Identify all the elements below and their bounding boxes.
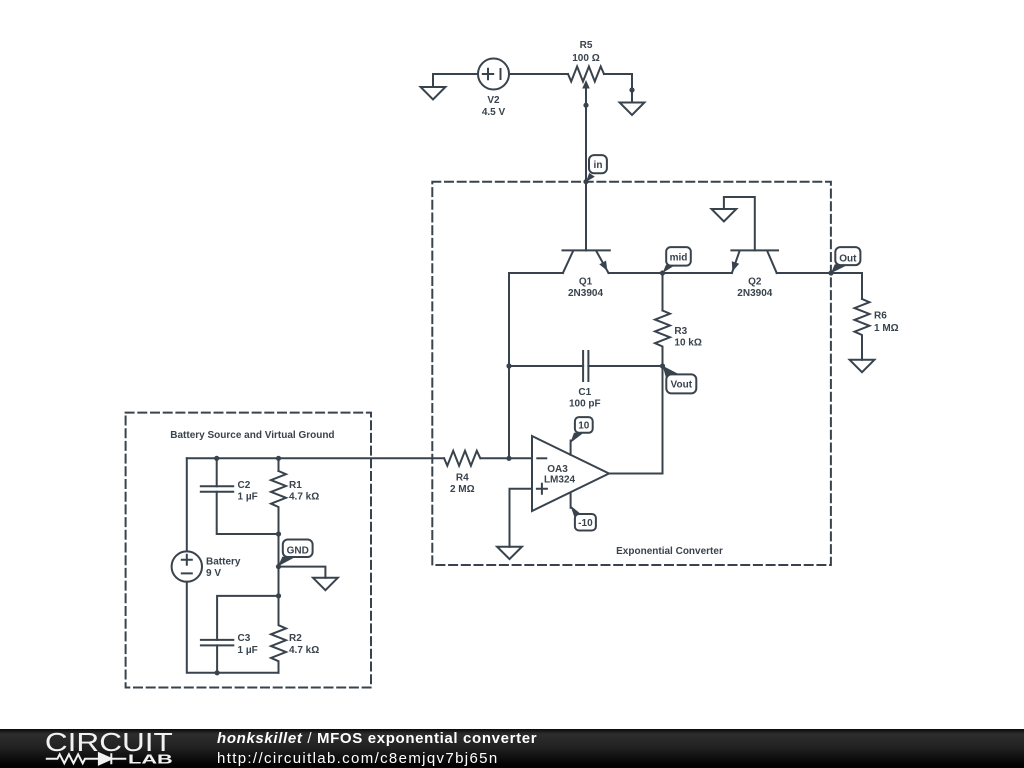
junction dot on wiper (583, 103, 588, 108)
ground G3 (Q2 base) (712, 209, 737, 221)
junction dot right of R5 (629, 87, 634, 92)
svg-text:100 Ω: 100 Ω (572, 53, 599, 64)
junction dot C2 top (214, 456, 219, 461)
footer bar (0, 729, 1024, 768)
svg-text:1 MΩ: 1 MΩ (874, 323, 899, 334)
label R4 value (450, 473, 475, 496)
svg-text:LM324: LM324 (544, 474, 576, 485)
svg-text:R2: R2 (289, 633, 302, 644)
svg-text:R3: R3 (674, 326, 687, 337)
svg-text:4.7 kΩ: 4.7 kΩ (289, 645, 319, 656)
dashed box Battery Source and Virtual Ground (126, 413, 371, 688)
label C1 value (569, 387, 601, 410)
capacitor C1 (509, 351, 663, 381)
label R1 value (289, 480, 319, 503)
label Battery Source and Virtual Ground (170, 430, 334, 441)
svg-text:LAB: LAB (128, 752, 173, 767)
wire battery left vertical top (186, 458, 188, 551)
dashed box Exponential Converter (432, 182, 831, 565)
node flag GND (278, 540, 313, 567)
svg-text:2 MΩ: 2 MΩ (450, 484, 475, 495)
svg-text:in: in (594, 160, 603, 171)
label Exponential Converter (616, 546, 723, 557)
label Q1 (568, 277, 603, 300)
op-amp OA3 (532, 436, 609, 511)
svg-text:C2: C2 (238, 480, 251, 491)
svg-text:R1: R1 (289, 480, 302, 491)
label R3 value (674, 326, 701, 349)
svg-text:R5: R5 (580, 40, 593, 51)
svg-text:10: 10 (578, 421, 590, 432)
junction dot Vout (660, 363, 665, 368)
label C3 value (238, 633, 258, 656)
svg-text:-10: -10 (578, 518, 593, 529)
svg-text:Out: Out (839, 253, 857, 264)
wire GND node to ground (279, 567, 326, 578)
svg-text:4.5 V: 4.5 V (482, 107, 506, 118)
label R2 value (289, 633, 319, 656)
junction dot C3 tee (276, 593, 281, 598)
resistor R2 (271, 596, 286, 673)
resistor R5 (potentiometer) (568, 67, 604, 106)
ground G1 (left of V2) (421, 74, 446, 99)
svg-text:1 µF: 1 µF (238, 492, 258, 503)
wire R5 right to corner (604, 74, 632, 90)
ground G6 (virtual ground) (313, 578, 338, 590)
wire battery bottom to rail (187, 582, 279, 673)
label OA3 (544, 464, 576, 485)
node flag Vout (663, 366, 697, 394)
svg-text:Q1: Q1 (579, 277, 593, 288)
node flag in (586, 155, 607, 182)
resistor R3 (655, 311, 670, 367)
wire Q1 collector to left column (509, 273, 563, 458)
svg-text:R6: R6 (874, 311, 887, 322)
svg-text:2N3904: 2N3904 (737, 288, 772, 299)
wire opamp + input to ground (510, 489, 533, 547)
svg-text:GND: GND (287, 545, 309, 556)
ground G4 (below R6) (850, 358, 875, 372)
wire in node to Q1 base (585, 182, 587, 251)
transistor Q2 (731, 250, 778, 273)
svg-text:C3: C3 (238, 633, 251, 644)
resistor R1 (271, 458, 286, 596)
junction dot R1 top (276, 456, 281, 461)
label V2 value (482, 95, 506, 118)
power flag -10 (570, 493, 596, 531)
resistor R6 (855, 299, 870, 358)
voltage source V2 (478, 59, 509, 90)
svg-text:Battery: Battery (206, 556, 241, 567)
ground G2 (right of R5) (620, 90, 645, 115)
power flag 10 (570, 417, 592, 455)
wire Q1 emitter to mid (609, 272, 663, 274)
svg-text:2N3904: 2N3904 (568, 288, 603, 299)
svg-text:9 V: 9 V (206, 568, 221, 579)
label R6 value (874, 311, 899, 334)
svg-text:V2: V2 (487, 95, 500, 106)
svg-text:10 kΩ: 10 kΩ (674, 338, 701, 349)
junction dot Out (828, 270, 833, 275)
junction dot node in (583, 179, 588, 184)
svg-text:100 pF: 100 pF (569, 399, 601, 410)
resistor R4 (444, 451, 532, 466)
label R5 value (572, 40, 599, 64)
wire Vout column to op-amp output (609, 366, 663, 474)
footer url (217, 750, 499, 767)
svg-text:1 µF: 1 µF (238, 645, 258, 656)
svg-text:Q2: Q2 (748, 277, 762, 288)
junction dot GND (276, 564, 281, 569)
junction dot C2 bottom (276, 531, 281, 536)
svg-text:Exponential Converter: Exponential Converter (616, 546, 723, 557)
label Battery value (206, 556, 241, 579)
capacitor C3 (201, 596, 279, 673)
junction dot C3 bottom (215, 670, 220, 675)
transistor Q1 (563, 250, 610, 273)
svg-text:4.7 kΩ: 4.7 kΩ (289, 492, 319, 503)
node flag mid (663, 247, 691, 273)
junction dot inverting input (506, 456, 511, 461)
label C2 value (238, 480, 258, 503)
wire Out to R6 (831, 273, 862, 299)
wire Q2 base to ground (724, 197, 755, 250)
svg-text:Battery Source and Virtual Gro: Battery Source and Virtual Ground (170, 430, 334, 441)
wire Q2 emitter to mid (663, 272, 732, 274)
svg-text:C1: C1 (578, 387, 591, 398)
footer title (217, 730, 537, 747)
battery source Battery 9V (172, 551, 202, 581)
wire Q2 collector to Out (777, 272, 831, 274)
label Q2 (737, 277, 772, 300)
svg-text:mid: mid (670, 252, 688, 263)
capacitor C2 (201, 458, 279, 534)
wire wiper down to in node (585, 105, 587, 182)
svg-text:Vout: Vout (671, 379, 693, 390)
junction dot C1 left (506, 363, 511, 368)
wire V2 to R5 (509, 73, 568, 75)
wire mid to R3 (662, 273, 664, 311)
wire main rail battery to R4 (187, 457, 444, 459)
wire top rail left segment (433, 73, 478, 75)
ground G5 (op-amp +) (497, 547, 522, 559)
node flag Out (831, 247, 860, 273)
junction dot mid (660, 270, 665, 275)
CircuitLab logo (0, 729, 200, 768)
svg-text:R4: R4 (456, 473, 469, 484)
